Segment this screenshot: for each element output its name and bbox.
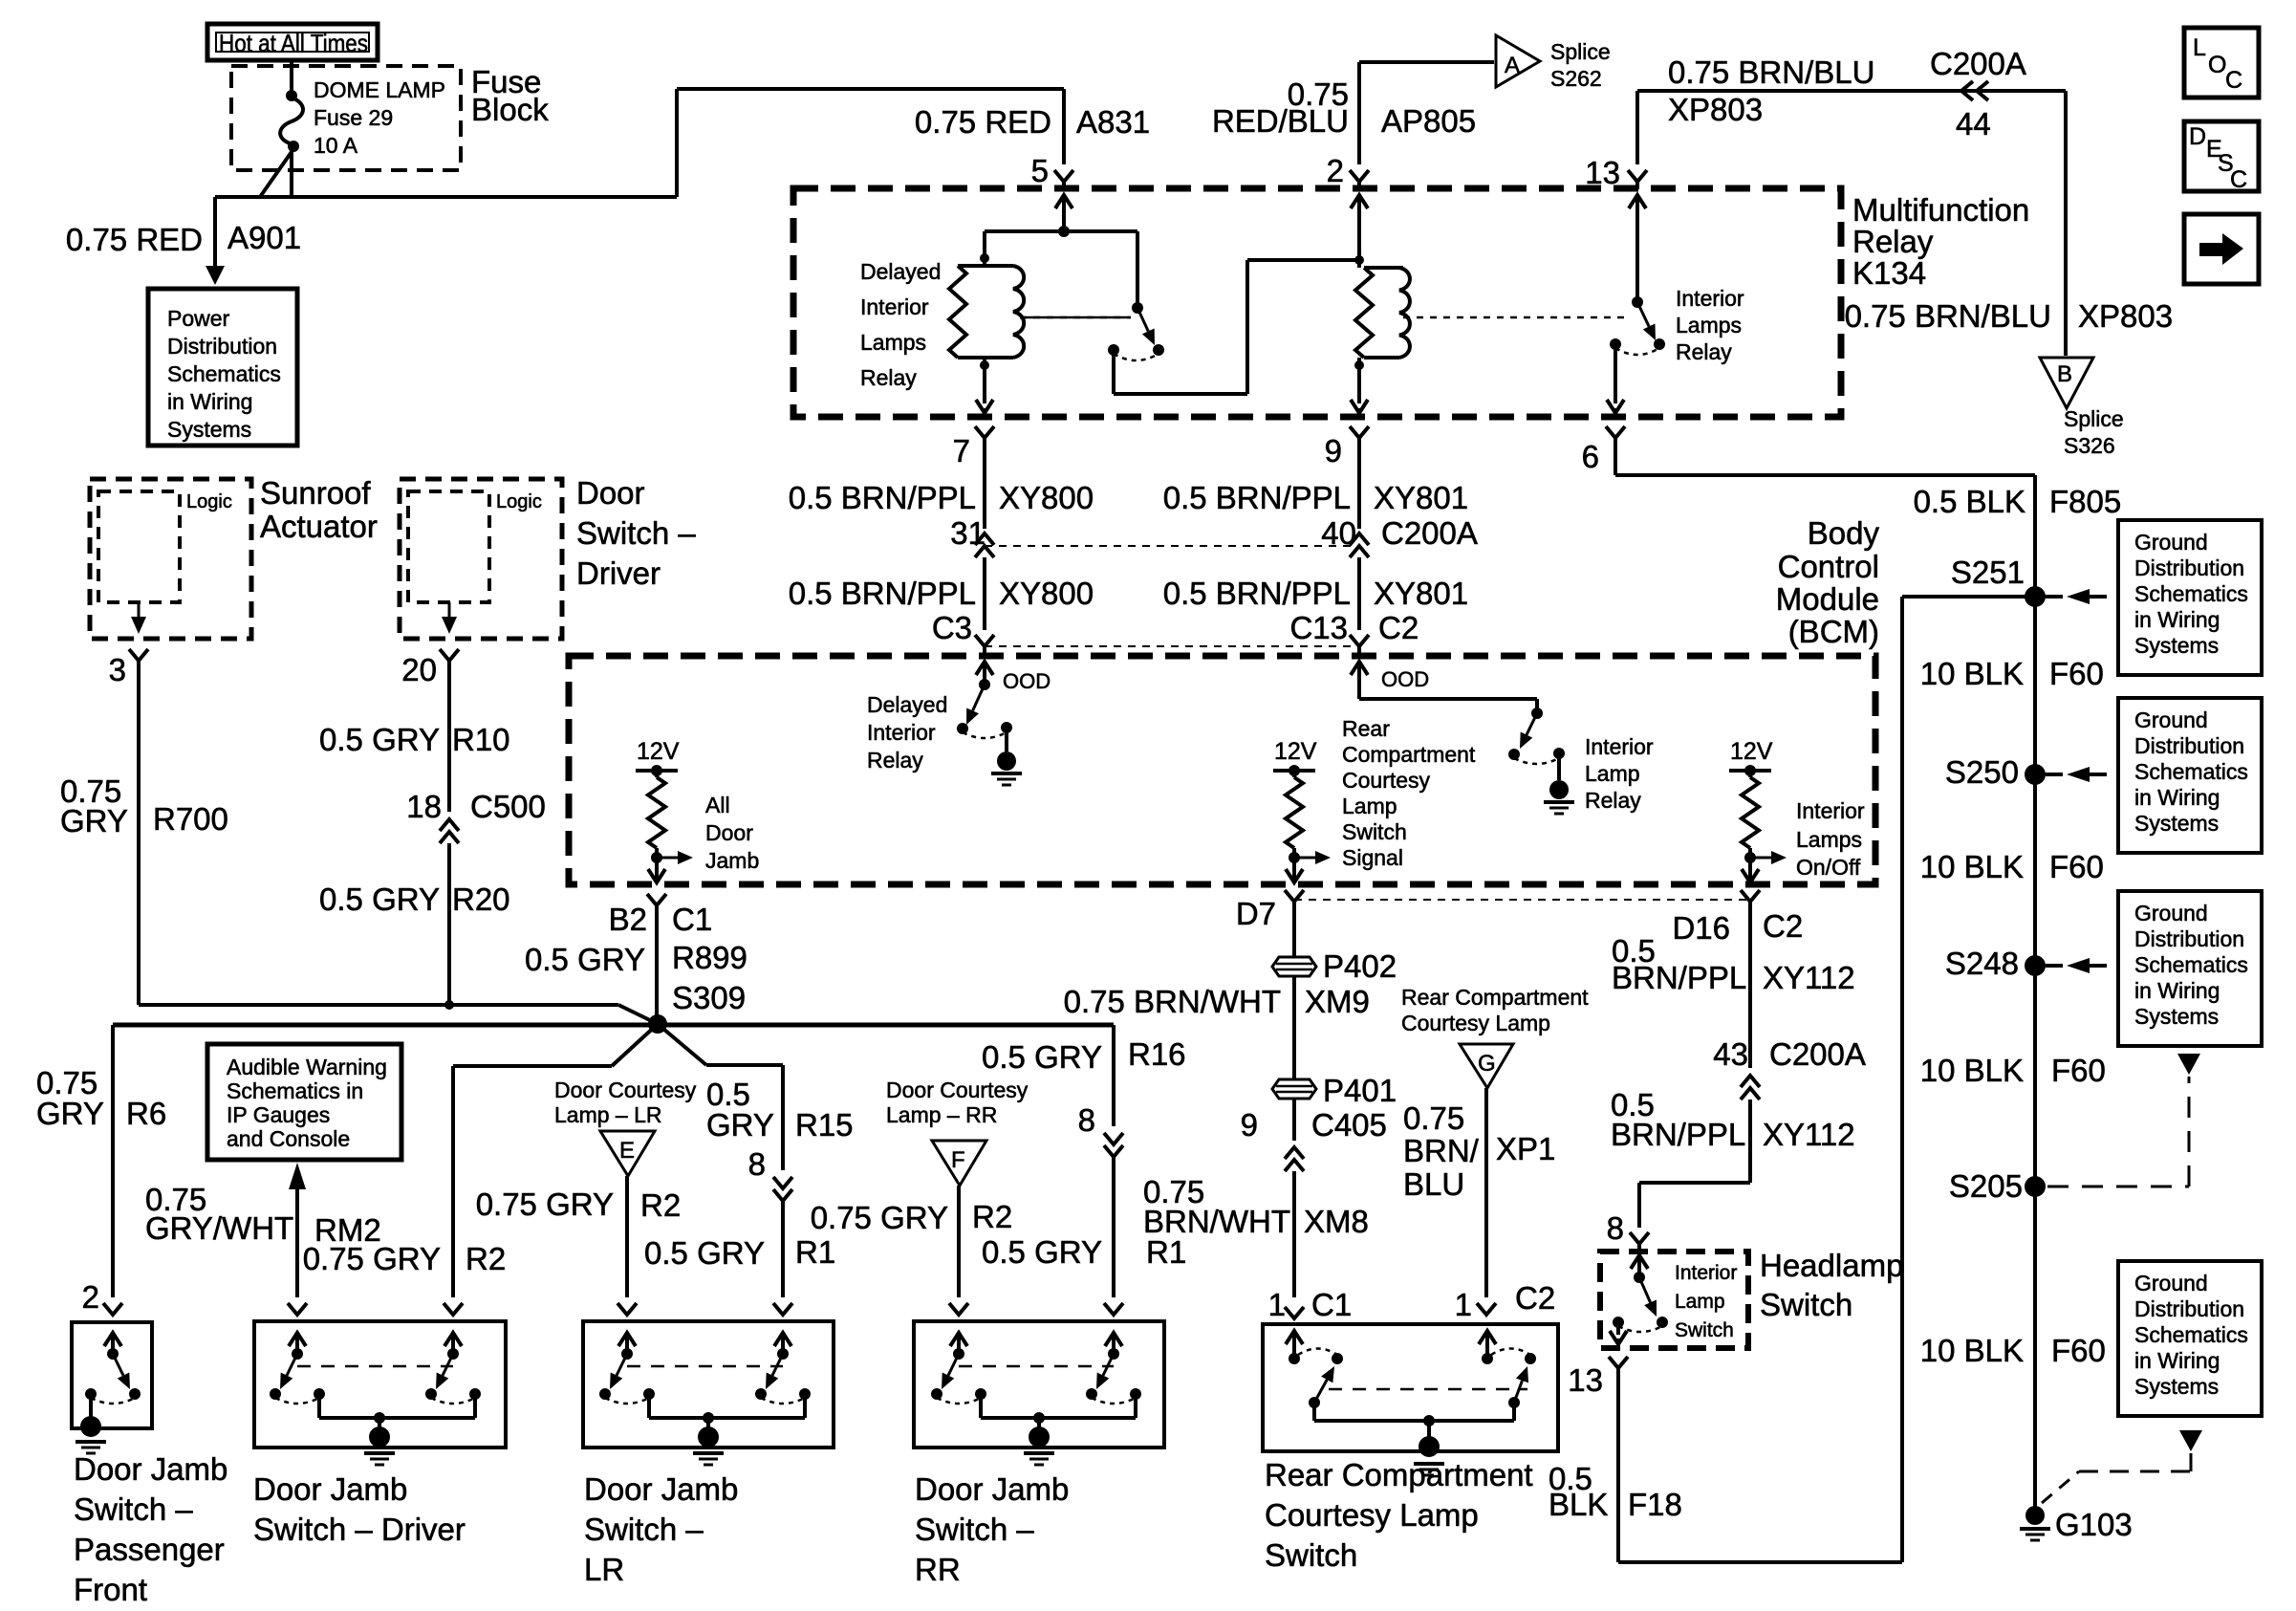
- svg-text:Door: Door: [576, 475, 645, 511]
- svg-text:Systems: Systems: [167, 417, 251, 442]
- svg-text:7: 7: [953, 433, 970, 468]
- svg-text:Lamp: Lamp: [1675, 1291, 1725, 1313]
- svg-text:0.75 BRN/WHT: 0.75 BRN/WHT: [1064, 984, 1281, 1019]
- svg-text:C13: C13: [1289, 610, 1348, 645]
- svg-text:S262: S262: [1550, 66, 1602, 91]
- svg-text:Logic: Logic: [186, 491, 232, 512]
- svg-text:OOD: OOD: [1003, 669, 1051, 693]
- svg-text:All: All: [705, 793, 730, 817]
- svg-text:Delayed: Delayed: [860, 259, 941, 284]
- svg-text:OOD: OOD: [1381, 667, 1429, 691]
- svg-text:Rear: Rear: [1342, 716, 1390, 741]
- svg-text:0.75 GRY: 0.75 GRY: [811, 1200, 948, 1235]
- svg-text:Multifunction: Multifunction: [1852, 192, 2029, 228]
- svg-text:0.75 GRY: 0.75 GRY: [476, 1186, 614, 1222]
- svg-text:8: 8: [748, 1146, 766, 1182]
- svg-text:Door Jamb: Door Jamb: [915, 1471, 1069, 1507]
- svg-text:10 BLK: 10 BLK: [1920, 656, 2024, 691]
- svg-text:S309: S309: [672, 980, 746, 1015]
- svg-text:Ground: Ground: [2134, 1271, 2208, 1295]
- svg-text:Relay: Relay: [1676, 339, 1732, 364]
- svg-text:R15: R15: [795, 1107, 854, 1143]
- svg-text:in Wiring: in Wiring: [167, 389, 252, 414]
- svg-text:in Wiring: in Wiring: [2134, 607, 2220, 632]
- svg-text:GRY: GRY: [60, 803, 128, 838]
- svg-text:9: 9: [1241, 1107, 1258, 1143]
- svg-text:GRY: GRY: [706, 1107, 774, 1143]
- svg-text:Door Jamb: Door Jamb: [584, 1471, 738, 1507]
- svg-text:Relay: Relay: [860, 365, 917, 390]
- svg-text:Body: Body: [1808, 515, 1880, 551]
- svg-text:D16: D16: [1672, 910, 1730, 946]
- svg-text:5: 5: [1031, 153, 1049, 188]
- svg-text:Lamps: Lamps: [1796, 827, 1862, 852]
- svg-text:Actuator: Actuator: [260, 509, 378, 544]
- svg-text:Jamb: Jamb: [705, 848, 759, 873]
- svg-text:12V: 12V: [1730, 738, 1773, 765]
- svg-text:0.5 GRY: 0.5 GRY: [319, 722, 440, 757]
- svg-text:Systems: Systems: [2134, 1374, 2219, 1399]
- svg-text:C200A: C200A: [1381, 515, 1478, 551]
- svg-text:(BCM): (BCM): [1788, 614, 1879, 649]
- svg-text:0.5 GRY: 0.5 GRY: [319, 882, 440, 917]
- svg-text:40: 40: [1321, 515, 1356, 551]
- svg-text:Splice: Splice: [2064, 406, 2124, 431]
- svg-text:F805: F805: [2049, 484, 2121, 519]
- svg-text:13: 13: [1568, 1362, 1603, 1398]
- svg-text:0.75 RED: 0.75 RED: [915, 104, 1051, 140]
- svg-text:F60: F60: [2051, 1333, 2106, 1368]
- svg-text:S326: S326: [2064, 433, 2115, 458]
- svg-text:R1: R1: [795, 1234, 835, 1270]
- svg-text:C200A: C200A: [1769, 1036, 1866, 1072]
- svg-text:8: 8: [1607, 1210, 1624, 1246]
- svg-text:10 BLK: 10 BLK: [1920, 1053, 2024, 1088]
- svg-text:A901: A901: [227, 220, 301, 255]
- svg-text:8: 8: [1078, 1102, 1095, 1138]
- svg-text:0.5 GRY: 0.5 GRY: [982, 1234, 1102, 1270]
- svg-text:D7: D7: [1236, 896, 1276, 931]
- svg-text:in Wiring: in Wiring: [2134, 978, 2220, 1003]
- svg-text:S248: S248: [1945, 946, 2019, 981]
- svg-text:R2: R2: [972, 1199, 1012, 1234]
- svg-text:R6: R6: [126, 1096, 166, 1131]
- svg-text:XP1: XP1: [1496, 1131, 1555, 1166]
- svg-text:BLK: BLK: [1549, 1487, 1608, 1522]
- svg-text:Distribution: Distribution: [2134, 1296, 2244, 1321]
- svg-text:Lamps: Lamps: [860, 330, 926, 355]
- svg-text:P401: P401: [1323, 1073, 1397, 1108]
- svg-text:P402: P402: [1323, 948, 1397, 984]
- svg-text:XY800: XY800: [999, 576, 1094, 611]
- svg-text:XY801: XY801: [1374, 480, 1468, 515]
- svg-text:XY112: XY112: [1763, 1117, 1855, 1152]
- svg-text:Switch –: Switch –: [74, 1491, 193, 1527]
- svg-text:B2: B2: [609, 902, 647, 937]
- svg-text:Sunroof: Sunroof: [260, 475, 371, 511]
- svg-text:BRN/: BRN/: [1403, 1133, 1480, 1168]
- svg-text:XM8: XM8: [1304, 1204, 1369, 1239]
- svg-text:E: E: [619, 1138, 635, 1164]
- svg-text:1: 1: [1268, 1287, 1286, 1322]
- svg-text:C2: C2: [1763, 908, 1803, 944]
- svg-text:Courtesy Lamp: Courtesy Lamp: [1265, 1497, 1479, 1533]
- svg-text:Passenger: Passenger: [74, 1532, 225, 1567]
- svg-text:13: 13: [1585, 155, 1620, 190]
- svg-text:Splice: Splice: [1550, 39, 1611, 64]
- svg-text:Logic: Logic: [496, 491, 542, 512]
- svg-text:Signal: Signal: [1342, 845, 1403, 870]
- svg-text:Courtesy: Courtesy: [1342, 768, 1431, 793]
- svg-text:0.5 GRY: 0.5 GRY: [982, 1039, 1102, 1075]
- svg-text:LR: LR: [584, 1552, 624, 1587]
- svg-text:6: 6: [1582, 439, 1599, 474]
- svg-text:Interior: Interior: [860, 294, 929, 319]
- svg-text:IP Gauges: IP Gauges: [227, 1102, 330, 1127]
- svg-text:XY800: XY800: [999, 480, 1094, 515]
- svg-text:G103: G103: [2055, 1507, 2133, 1542]
- svg-text:31: 31: [950, 515, 986, 551]
- svg-text:RM2: RM2: [314, 1212, 381, 1248]
- svg-text:C1: C1: [672, 902, 712, 937]
- svg-text:Lamp – LR: Lamp – LR: [554, 1102, 662, 1127]
- svg-text:R899: R899: [672, 940, 747, 975]
- svg-text:44: 44: [1956, 106, 1991, 142]
- svg-text:BRN/PPL: BRN/PPL: [1611, 1117, 1745, 1152]
- svg-text:Schematics in: Schematics in: [227, 1078, 363, 1103]
- svg-text:10 BLK: 10 BLK: [1920, 1333, 2024, 1368]
- svg-text:AP805: AP805: [1381, 103, 1476, 139]
- svg-text:Hot at All Times: Hot at All Times: [219, 29, 368, 57]
- svg-text:0.5 BRN/PPL: 0.5 BRN/PPL: [1163, 480, 1351, 515]
- svg-text:2: 2: [82, 1279, 99, 1315]
- svg-text:Audible Warning: Audible Warning: [227, 1055, 387, 1079]
- svg-text:Door: Door: [705, 820, 753, 845]
- svg-text:0.5 BRN/PPL: 0.5 BRN/PPL: [789, 480, 976, 515]
- svg-text:R16: R16: [1128, 1036, 1186, 1072]
- svg-text:Power: Power: [167, 306, 230, 331]
- svg-text:Lamp: Lamp: [1585, 761, 1640, 786]
- svg-text:S205: S205: [1949, 1168, 2023, 1204]
- svg-text:0.5 BLK: 0.5 BLK: [1914, 484, 2025, 519]
- svg-text:Schematics: Schematics: [167, 361, 281, 386]
- svg-text:Door Jamb: Door Jamb: [253, 1471, 407, 1507]
- svg-text:XY801: XY801: [1374, 576, 1468, 611]
- svg-text:F60: F60: [2051, 1053, 2106, 1088]
- svg-text:Lamp: Lamp: [1342, 794, 1397, 818]
- svg-text:Front: Front: [74, 1572, 147, 1607]
- svg-text:43: 43: [1713, 1036, 1748, 1072]
- svg-text:C500: C500: [470, 789, 546, 824]
- svg-text:G: G: [1478, 1051, 1496, 1077]
- svg-text:Relay: Relay: [1585, 788, 1641, 813]
- svg-text:3: 3: [109, 652, 126, 687]
- svg-text:12V: 12V: [1274, 738, 1317, 765]
- svg-text:BRN/WHT: BRN/WHT: [1143, 1204, 1290, 1239]
- svg-text:F: F: [951, 1147, 965, 1173]
- svg-text:9: 9: [1325, 433, 1342, 468]
- svg-text:K134: K134: [1852, 255, 1926, 291]
- svg-text:0.75 BRN/BLU: 0.75 BRN/BLU: [1668, 54, 1874, 90]
- svg-text:18: 18: [406, 789, 442, 824]
- svg-text:Interior: Interior: [1585, 734, 1654, 759]
- svg-text:R700: R700: [153, 801, 228, 837]
- svg-text:D: D: [2189, 123, 2206, 150]
- svg-text:Delayed: Delayed: [867, 692, 947, 717]
- svg-text:Lamp – RR: Lamp – RR: [886, 1102, 997, 1127]
- svg-text:XM9: XM9: [1305, 984, 1370, 1019]
- svg-text:F60: F60: [2049, 656, 2104, 691]
- svg-text:Ground: Ground: [2134, 901, 2208, 925]
- svg-text:12V: 12V: [637, 738, 680, 765]
- svg-text:Systems: Systems: [2134, 633, 2219, 658]
- svg-text:0.5 GRY: 0.5 GRY: [644, 1235, 765, 1271]
- svg-text:Switch: Switch: [1342, 819, 1407, 844]
- svg-text:Interior: Interior: [1796, 798, 1865, 823]
- svg-text:Relay: Relay: [867, 748, 923, 773]
- svg-text:S251: S251: [1951, 555, 2025, 590]
- svg-text:in Wiring: in Wiring: [2134, 785, 2220, 810]
- svg-text:0.5 GRY: 0.5 GRY: [525, 942, 645, 977]
- svg-text:Switch: Switch: [1760, 1287, 1852, 1322]
- svg-text:C3: C3: [932, 610, 972, 645]
- svg-text:Distribution: Distribution: [2134, 733, 2244, 758]
- svg-text:Door Jamb: Door Jamb: [74, 1451, 227, 1487]
- svg-text:Schematics: Schematics: [2134, 1322, 2248, 1347]
- svg-text:R2: R2: [466, 1241, 506, 1276]
- svg-text:Module: Module: [1776, 581, 1879, 617]
- svg-text:XY112: XY112: [1763, 960, 1855, 995]
- svg-text:Headlamp: Headlamp: [1760, 1248, 1903, 1283]
- svg-text:Distribution: Distribution: [167, 334, 277, 359]
- svg-text:C200A: C200A: [1930, 46, 2026, 81]
- svg-text:Distribution: Distribution: [2134, 555, 2244, 580]
- svg-text:in Wiring: in Wiring: [2134, 1348, 2220, 1373]
- svg-text:A831: A831: [1076, 104, 1150, 140]
- svg-text:Switch –: Switch –: [576, 515, 696, 551]
- svg-text:Rear Compartment: Rear Compartment: [1265, 1457, 1533, 1492]
- svg-text:Ground: Ground: [2134, 530, 2208, 555]
- svg-text:L: L: [2193, 34, 2206, 61]
- svg-text:Schematics: Schematics: [2134, 581, 2248, 606]
- svg-text:Schematics: Schematics: [2134, 759, 2248, 784]
- svg-text:Switch: Switch: [1265, 1537, 1357, 1573]
- svg-text:20: 20: [401, 652, 437, 687]
- svg-text:GRY: GRY: [36, 1096, 104, 1131]
- svg-text:Driver: Driver: [576, 555, 661, 591]
- svg-text:C405: C405: [1311, 1107, 1387, 1143]
- svg-text:DOME LAMP: DOME LAMP: [314, 77, 445, 102]
- svg-text:2: 2: [1327, 153, 1344, 188]
- svg-text:10 A: 10 A: [314, 133, 358, 158]
- svg-text:Ground: Ground: [2134, 708, 2208, 732]
- svg-text:R10: R10: [452, 722, 510, 757]
- svg-text:Compartment: Compartment: [1342, 742, 1476, 767]
- svg-text:10 BLK: 10 BLK: [1920, 849, 2024, 884]
- svg-text:C2: C2: [1515, 1280, 1555, 1316]
- svg-text:0.5 BRN/PPL: 0.5 BRN/PPL: [789, 576, 976, 611]
- svg-text:0.75 RED: 0.75 RED: [66, 222, 203, 257]
- svg-text:A: A: [1505, 53, 1520, 78]
- svg-text:Block: Block: [471, 92, 549, 127]
- svg-text:Interior: Interior: [867, 720, 936, 745]
- svg-text:Switch –: Switch –: [915, 1512, 1034, 1547]
- svg-text:O: O: [2208, 52, 2226, 78]
- svg-text:Relay: Relay: [1852, 224, 1934, 259]
- svg-text:Door Courtesy: Door Courtesy: [554, 1078, 697, 1102]
- svg-text:Interior: Interior: [1675, 1262, 1737, 1284]
- svg-text:Systems: Systems: [2134, 1004, 2219, 1029]
- svg-text:C: C: [2230, 166, 2247, 193]
- svg-text:Systems: Systems: [2134, 811, 2219, 836]
- svg-text:R20: R20: [452, 882, 510, 917]
- svg-text:C2: C2: [1378, 610, 1419, 645]
- svg-text:Switch –: Switch –: [584, 1512, 704, 1547]
- svg-text:F60: F60: [2049, 849, 2104, 884]
- svg-text:Distribution: Distribution: [2134, 926, 2244, 951]
- svg-text:0.75: 0.75: [1403, 1100, 1464, 1136]
- svg-text:S250: S250: [1945, 754, 2019, 790]
- svg-text:R2: R2: [640, 1187, 681, 1223]
- svg-text:Control: Control: [1778, 549, 1879, 584]
- svg-text:XP803: XP803: [2078, 298, 2173, 334]
- svg-text:RED/BLU: RED/BLU: [1212, 103, 1349, 139]
- svg-text:Courtesy Lamp: Courtesy Lamp: [1401, 1011, 1550, 1035]
- svg-text:RR: RR: [915, 1552, 961, 1587]
- svg-text:On/Off: On/Off: [1796, 855, 1861, 880]
- svg-text:Fuse 29: Fuse 29: [314, 105, 393, 130]
- svg-text:BRN/PPL: BRN/PPL: [1612, 960, 1746, 995]
- svg-text:0.75 BRN/BLU: 0.75 BRN/BLU: [1845, 298, 2051, 334]
- svg-text:0.5 BRN/PPL: 0.5 BRN/PPL: [1163, 576, 1351, 611]
- svg-text:C1: C1: [1311, 1287, 1352, 1322]
- svg-text:C: C: [2225, 67, 2242, 94]
- svg-text:Switch – Driver: Switch – Driver: [253, 1512, 466, 1547]
- svg-text:and Console: and Console: [227, 1126, 350, 1151]
- svg-text:Interior: Interior: [1676, 286, 1744, 311]
- svg-text:B: B: [2057, 361, 2072, 387]
- svg-text:Schematics: Schematics: [2134, 952, 2248, 977]
- svg-text:XP803: XP803: [1668, 92, 1763, 127]
- svg-text:Switch: Switch: [1675, 1319, 1734, 1341]
- svg-text:BLU: BLU: [1403, 1166, 1464, 1202]
- svg-text:GRY/WHT: GRY/WHT: [145, 1210, 293, 1246]
- svg-text:1: 1: [1455, 1287, 1472, 1322]
- svg-text:F18: F18: [1628, 1487, 1682, 1522]
- svg-text:Rear Compartment: Rear Compartment: [1401, 985, 1589, 1010]
- svg-text:Lamps: Lamps: [1676, 313, 1742, 337]
- svg-text:Door Courtesy: Door Courtesy: [886, 1078, 1029, 1102]
- svg-text:R1: R1: [1146, 1234, 1186, 1270]
